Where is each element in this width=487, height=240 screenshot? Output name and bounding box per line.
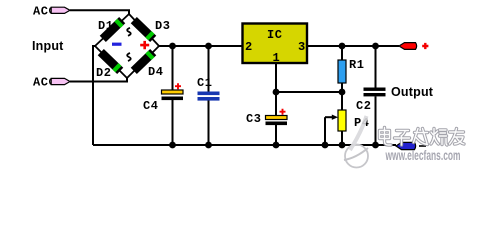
output terminal plus (red) (399, 43, 417, 50)
capacitor C3 (electrolytic) plus mark (280, 109, 286, 115)
AC input terminal (top), pink (51, 7, 70, 13)
wire: C4 top lead (172, 46, 174, 90)
svg-text:C1: C1 (197, 76, 213, 90)
wire: bottom AC terminal to bridge bottom vertex (70, 78, 127, 82)
AC marker (~) bottom inside bridge (127, 53, 131, 61)
diode D3 (bridge, top-right edge) (131, 17, 157, 42)
junction node (C4 / rail) (169, 142, 176, 149)
junction node (R1 bottom / P4 top) (339, 89, 346, 96)
wire: pin1 node to R1/P4 node (276, 91, 342, 93)
wire: C1 top lead (208, 46, 210, 92)
wire: C3 bottom lead (275, 125, 277, 145)
junction node (top rail / C1) (205, 43, 212, 50)
wire: P4 wiper down to ground rail (324, 117, 326, 145)
potentiometer P4 wiper arrow (325, 116, 333, 118)
capacitor C4 positive plate (162, 90, 184, 94)
diode D2 (bridge, left-bottom edge) (98, 49, 124, 74)
watermark (344, 116, 464, 168)
capacitor C1 plate (top) (198, 92, 220, 96)
svg-text:IC: IC (267, 28, 283, 42)
label + (output plus, red) (422, 43, 428, 49)
wire: C3 top lead (275, 92, 277, 116)
ground/return rail (bottom) (93, 144, 396, 146)
wire: bridge edge B-R (leads of D4) (127, 46, 159, 78)
wire: C2 top lead (375, 46, 377, 88)
svg-text:Output: Output (391, 85, 434, 99)
svg-text:D3: D3 (155, 19, 171, 33)
wire: IC pin1 down to node (275, 64, 277, 93)
svg-text:2: 2 (245, 40, 253, 54)
junction node (pin1 / C3 / divider) (273, 89, 280, 96)
wire: P4 top lead (341, 92, 343, 110)
diode D1 (bridge, left-top edge) (100, 17, 126, 42)
junction node (wiper / ground rail) (322, 142, 329, 149)
svg-text:C2: C2 (356, 99, 372, 113)
wire: C2 bottom lead (375, 96, 377, 145)
svg-text:AC: AC (33, 4, 49, 18)
svg-text:1: 1 (273, 51, 281, 65)
wire: top AC terminal to bridge top vertex (70, 10, 129, 15)
junction node (top rail / C2) (372, 43, 379, 50)
junction node (C2 / ground rail) (372, 142, 379, 149)
capacitor C2 plate (bottom) (364, 93, 386, 96)
svg-text:www.elecfans.com: www.elecfans.com (385, 148, 461, 163)
minus polarity mark (bridge left, blue) (112, 43, 122, 46)
wire: positive top rail from bridge right vertex to output (159, 45, 399, 47)
svg-text:D4: D4 (148, 65, 164, 79)
diode D4 (bridge, bottom-right edge) (131, 49, 157, 74)
wire: C1 bottom lead (208, 101, 210, 146)
svg-text:C4: C4 (143, 99, 159, 113)
junction node (P4 / ground rail) (339, 142, 346, 149)
capacitor C4 negative plate (162, 97, 184, 101)
wire: R1 top lead (341, 46, 343, 60)
svg-text:AC: AC (33, 76, 49, 90)
label - (output minus) (419, 145, 426, 147)
wire: R1 bottom lead (341, 83, 343, 92)
svg-text:D1: D1 (98, 19, 114, 33)
plus polarity mark (bridge right, red) (140, 41, 149, 49)
AC input terminal (bottom), pink (51, 78, 70, 84)
wire: C4 bottom lead (172, 100, 174, 145)
wire: P4 bottom lead (341, 131, 343, 145)
junction node (top rail / C4) (169, 43, 176, 50)
potentiometer P4 body (338, 110, 346, 131)
junction node (C3 / rail) (273, 142, 280, 149)
svg-text:Input: Input (32, 39, 64, 53)
capacitor C4 (electrolytic) plus mark (175, 83, 181, 89)
svg-text:D2: D2 (96, 66, 112, 80)
wire: bridge edge L-B (leads of D2) (95, 46, 127, 78)
svg-text:3: 3 (298, 40, 306, 54)
junction node (C1 / rail) (205, 142, 212, 149)
AC marker (~) top inside bridge (127, 28, 131, 36)
resistor R1 (338, 60, 346, 83)
wire: bridge edge L-T (leads of D1) (95, 14, 129, 46)
wire: bridge edge T-R (leads of D3) (129, 14, 159, 46)
output terminal minus (blue) (396, 142, 416, 149)
regulator IC U1 (243, 24, 308, 64)
capacitor C1 plate (bottom) (198, 97, 220, 101)
capacitor C3 negative plate (266, 122, 288, 126)
junction node (top rail / R1) (339, 43, 346, 50)
capacitor C2 plate (top) (364, 88, 386, 91)
svg-text:C3: C3 (246, 112, 262, 126)
wire: bridge left (minus) vertex down to ground rail (93, 46, 95, 145)
svg-text:R1: R1 (349, 58, 365, 72)
capacitor C3 positive plate (266, 116, 288, 120)
